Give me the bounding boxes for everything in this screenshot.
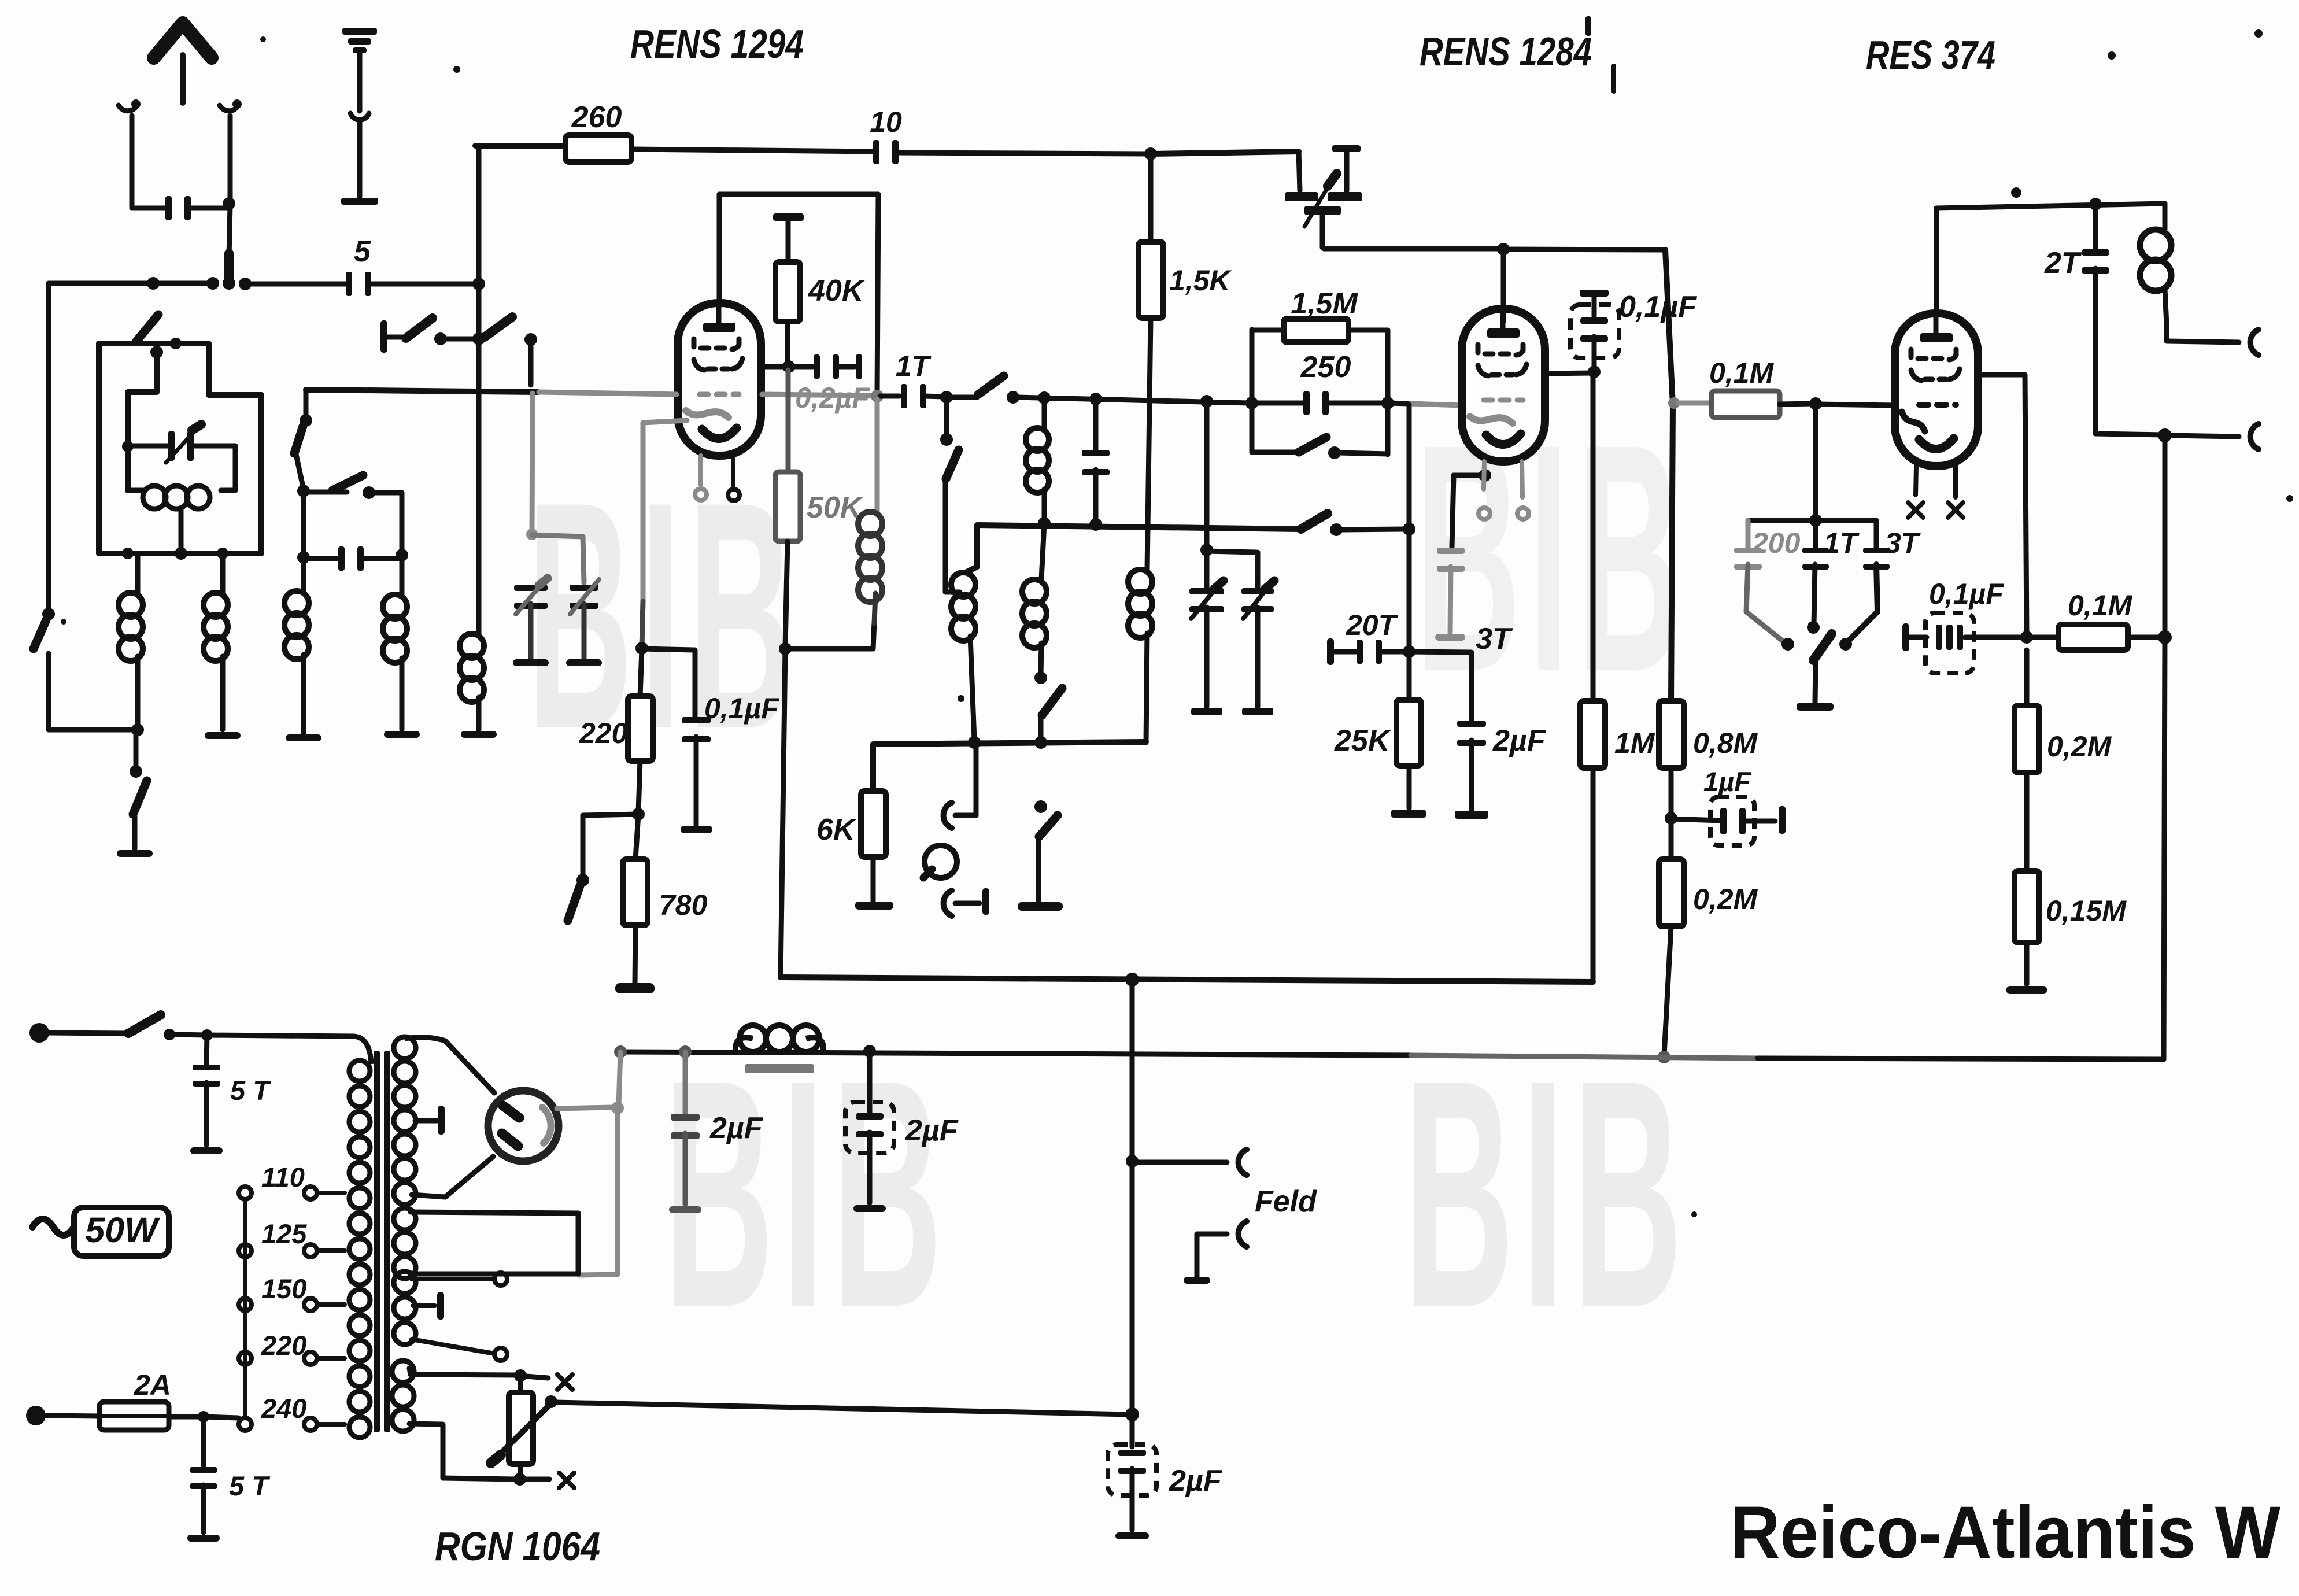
wire Feld terminal [1134,1160,1227,1165]
wire vertical x828 [476,146,482,630]
voltage selector column [239,1187,252,1431]
svg-text:2A: 2A [134,1369,171,1401]
ground 6K [855,902,893,910]
wire cathode branch [642,649,695,719]
svg-text:1µF: 1µF [1703,766,1751,797]
coil frame antenna [128,486,235,509]
svg-text:250: 250 [1300,350,1351,384]
wire 40K to grid node [782,322,795,373]
wire 1,5M bracket right [1381,330,1394,455]
capacitor 1T [880,350,944,408]
svg-text:BIB: BIB [1404,1013,1691,1375]
wire HV bottom to plate [412,1157,493,1197]
frame antenna box outline [99,343,261,553]
wire fuse to selector [169,1411,238,1423]
resistor 0,15M [2015,773,2127,943]
earth/ground electrode symbol [341,28,378,205]
capacitor 0,1µF cathode [682,692,779,825]
svg-text:0,1µF: 0,1µF [1929,578,2004,610]
trimmer osc 1 [1189,551,1224,707]
tube RENS 1294 envelope [678,303,761,456]
wire grid bus black [306,390,538,392]
scan speck 10 [260,36,266,42]
wire frame inner [122,352,157,490]
svg-text:1T: 1T [1824,527,1860,559]
tube1 pin circles [695,489,740,501]
transformer core [374,1051,390,1432]
svg-text:150: 150 [261,1273,306,1304]
label 220 [261,1330,306,1361]
wire AVC line gray [539,392,874,396]
terminal 0,2µF end [856,354,862,379]
svg-text:40K: 40K [808,274,866,308]
wire feedback box top [719,192,878,197]
switch left open blade [34,620,46,649]
hook speaker 2 [2250,424,2259,449]
capacitor 2T [2044,204,2109,434]
capacitor 5 [346,235,371,296]
scan speck 7 [1691,1211,1697,1217]
tube3 x marks [1908,503,1963,518]
switch frame top blade [136,315,182,359]
capacitor 0,1µF coupling (dashed box) [1925,578,2024,673]
switch ground blade [133,781,147,814]
svg-text:Reico-Atlantis W: Reico-Atlantis W [1730,1491,2280,1574]
antenna symbol [154,23,212,103]
wire cap10 to HT node [896,147,1157,160]
wire osc bus corner [966,525,977,572]
wire grid lead tube1 [761,364,786,370]
wire contact drop [528,341,534,385]
coil B (frame coil 2) [204,553,228,730]
wire HV top to plate [405,1037,494,1093]
tube RENS 1284 envelope [1462,309,1545,461]
switch coil4 blade [1034,688,1062,749]
wire mixer node drop [940,400,953,446]
trimmer AVC 1 [513,578,549,666]
wire box left side [781,649,785,976]
hook speaker 1 [2250,330,2259,355]
node AVC [871,390,884,402]
switch bias blade [568,886,580,921]
wire hum wiper to HT- [555,1402,1130,1414]
watermark BIB background [527,377,1691,1375]
wire x235 drop [130,730,142,778]
wire HT- vertical [1125,981,1139,1447]
terminal 2µF [1455,811,1488,819]
svg-text:0,8M: 0,8M [1693,727,1758,759]
node bus left [223,277,235,290]
svg-text:10: 10 [870,106,902,138]
wire HT to osc section [1151,152,1299,154]
capacitor 5T mains 2 [187,1417,271,1542]
ground Feld lower [1184,1234,1227,1284]
trimmer osc 2 [1241,581,1274,707]
svg-text:5 T: 5 T [229,1471,271,1501]
resistor 40K [775,221,866,322]
scan speck 11 [958,695,964,702]
wire screen lead tube2 [1545,373,1591,374]
label Feld [1255,1185,1317,1218]
wire speaker top [2167,341,2239,342]
tube1 pin leads [701,456,733,487]
wire trimmer2 branch [1207,551,1258,589]
wire screen feed right [1665,250,1673,701]
coil 3 (osc coupling) [1026,399,1049,522]
hook Feld [1239,1150,1247,1175]
terminal 0,1µF post [1902,623,1927,651]
scan speck 3 [1611,64,1616,94]
wire 1,5K down [1147,318,1151,570]
svg-text:2µF: 2µF [905,1114,959,1147]
svg-text:2µF: 2µF [709,1111,763,1145]
wire top left feed [475,143,565,149]
svg-text:BIB: BIB [1415,377,1690,738]
svg-text:780: 780 [659,889,708,921]
capacitor 10 [870,106,902,164]
label RES 374 [1866,32,1995,77]
wire grid lead tube3 [1818,404,1895,405]
resistor 1,5K [1139,154,1233,318]
wire rectifier output gray [557,1102,624,1275]
capacitor 0,2µF grid [791,354,855,379]
wire filament bottom [409,1424,549,1486]
svg-text:260: 260 [571,101,622,134]
ground 0,15M [2006,943,2047,994]
ground coil E [461,731,497,738]
gray AVC drop [526,393,538,540]
trimmer AVC 2 [566,579,602,666]
terminal 40K top [773,213,804,221]
capacitor 2µF filter 2 (dashed box) [845,1051,959,1212]
resistor 50K [775,370,864,541]
wire HT- box right / resistor 1M leads [1591,375,1596,982]
svg-text:1M: 1M [1614,727,1655,759]
fuse 2A [26,1369,171,1430]
capacitor osc pad [1082,399,1110,522]
resistor 1,5M [1252,287,1388,342]
wire x695 drop [400,555,405,594]
wire 20T to 2µF [1409,652,1470,652]
scan speck 2 [1585,16,1591,36]
capacitor 2µF cathode [1457,652,1546,810]
wire plate line y430 [1324,243,1665,256]
switch tone blade [1813,634,1832,702]
wire to x695 [374,493,408,561]
wire to coil2 tap [945,480,960,592]
switch row T-post [380,320,405,353]
capacitor 1T anode [1802,522,1860,634]
capacitor padding [297,546,402,571]
ground tone switch [1797,703,1834,711]
tube RGN 1064 (rectifier) [488,1091,559,1161]
wire plate lead tube1 [717,194,722,303]
wire coil A to switch [49,727,138,733]
wire left vertical lower [46,653,51,730]
svg-text:0,1M: 0,1M [1709,357,1775,389]
coil output transformer [2140,204,2171,340]
node output join [2158,428,2172,442]
svg-text:1,5M: 1,5M [1291,287,1358,320]
terminal HV center tap [415,1106,445,1135]
ground coil B [205,732,241,739]
terminal pickup bar [1018,902,1063,911]
svg-text:RENS 1294: RENS 1294 [630,21,804,66]
resistor 260 [565,101,631,162]
node antenna selector [223,197,235,210]
resistor 0,2M right [2015,650,2112,773]
node bus right of gap [239,278,252,290]
switch osc blade [1301,513,1343,536]
wire bus to cap 5 [245,282,348,287]
wire mains 1b [175,1029,371,1064]
svg-text:240: 240 [261,1393,306,1424]
capacitor 20T [1327,609,1406,665]
wire cap5 to vertical [369,282,479,287]
wire cathode branch tube2 [1452,469,1491,547]
svg-text:RGN 1064: RGN 1064 [435,1524,600,1569]
switch row blade 1 [406,318,447,345]
scan speck 9 [2254,29,2263,38]
capacitor antenna series [132,196,229,220]
wire tube3 side [1978,375,2033,644]
coil 5 (IF primary) [1128,570,1152,742]
switch grid blade [949,376,1019,404]
gray AVC branch [532,535,584,583]
wire 50K down [779,541,792,655]
wire cathode-coil link [785,622,874,649]
transformer primary winding [349,1061,370,1438]
svg-text:220: 220 [261,1330,306,1361]
variable capacitor frame trimmer [128,424,235,490]
title Reico-Atlantis W [1730,1491,2280,1574]
svg-text:RENS 1284: RENS 1284 [1420,29,1592,74]
switch row blade 2 [485,317,537,346]
svg-text:50K: 50K [807,491,864,524]
wire HT- main rail [620,1052,2164,1059]
svg-text:0,15M: 0,15M [2046,895,2127,927]
switch mains blade [128,1015,175,1040]
wire cathode tube1 [635,420,687,655]
capacitor trio bracket [1748,405,1876,527]
coil D (antenna coil 4) [383,594,407,730]
coil E (antenna coil 5) [460,628,484,730]
wire x525 drop [301,491,306,591]
label 125 [261,1218,307,1249]
terminal phones post [982,888,989,915]
svg-text:200: 200 [1751,527,1801,559]
label ~ mains [32,1219,74,1235]
hook Feld lower [1239,1221,1247,1247]
scan speck 5 [2108,51,2116,60]
tube2 pin leads [1484,461,1522,497]
capacitor 250 [1252,350,1388,415]
wire 220 to 780 [632,761,645,821]
svg-text:25K: 25K [1334,724,1392,758]
wire cathode bus 1283 [873,742,1146,791]
antenna terminal hook 2 [220,99,242,205]
node 2µF filter 1 [679,1045,692,1058]
capacitor 1µF (dashed box) [1671,766,1786,845]
wire 260 to cap10 [631,149,875,152]
ground antenna switch [117,850,153,857]
heater terminal circles [494,1273,507,1361]
antenna terminal hook 1 [119,99,141,208]
svg-text:Feld: Feld [1255,1185,1317,1218]
wire antenna bus [49,277,219,290]
node choke output [863,1045,876,1058]
wire grid2 gray [1388,403,1462,405]
svg-text:BIB: BIB [527,435,801,796]
svg-text:110: 110 [261,1162,305,1192]
svg-text:RES 374: RES 374 [1866,32,1995,77]
wire 0,8M down [1665,768,1677,825]
wire grid bus corner [300,390,312,427]
svg-text:2µF: 2µF [1169,1464,1222,1498]
wire 2T corner [2095,434,2165,435]
terminal 0,1µF end [681,826,712,833]
coil 1 (antenna secondary) [858,399,882,623]
variable resistor hum [491,1376,557,1478]
wire osc grid leak [1403,405,1415,658]
wire 1,5M bracket left [1245,330,1258,452]
node coil A bottom [131,723,144,736]
choke (field coil) [735,1025,823,1073]
resistor 0,1M grid [1678,357,1813,418]
voltage selector taps [304,1187,345,1431]
wire 6K to ground [871,857,876,901]
ground 780 pad [615,925,655,993]
wire feedback box right [877,194,878,393]
svg-text:3T: 3T [1885,527,1921,559]
resistor 780 [623,814,708,925]
label 240 [261,1393,306,1424]
label RENS 1294 [630,21,804,66]
coil 2 (oscillator) [951,572,975,740]
terminal trimmer2 [1242,708,1273,715]
svg-text:50W: 50W [85,1210,160,1250]
wire bias branch [576,814,638,886]
hook phones 2 [944,891,980,916]
wire to ground [132,817,138,849]
coil C (antenna coil 3) [284,591,309,733]
wire HT- box bottom [781,973,1593,987]
label 150 [261,1273,306,1304]
wire frame tap [122,508,228,560]
mains terminal 1 [29,1023,49,1043]
capacitor 2µF filter 1 [669,1052,763,1213]
scan speck 6 [61,619,66,625]
switch regen [1252,437,1388,459]
resistor 25K [1334,652,1421,766]
node mixer grid [940,391,953,404]
coil 4 (osc tap) [1022,523,1047,684]
resistor 0,2M left [1659,818,1758,926]
wire plate lead tube2 [1501,250,1506,322]
transformer heater winding B [394,1208,578,1279]
terminal x top [557,1375,572,1390]
node coil2 bottom [968,736,981,749]
scan speck 8 [2286,495,2293,502]
coil A (frame coil) [119,553,143,727]
node screen gray [1668,397,1680,409]
transformer heater winding C [394,1272,491,1353]
switch antenna selector blade [224,249,234,285]
wire x2087 drop [1200,403,1213,556]
svg-text:1T: 1T [896,350,932,382]
label RGN 1064 [435,1524,600,1569]
scan speck 1 [453,66,460,73]
node x828 bus [472,278,485,290]
wire plate lead tube3 [1934,208,1939,313]
wire osc bus [977,517,1299,531]
svg-text:0,1µF: 0,1µF [1619,290,1697,324]
svg-text:125: 125 [261,1218,307,1249]
ground coil D [384,731,420,738]
switch waveband blade 3 [332,475,375,499]
svg-text:5: 5 [354,235,371,268]
wire antenna drop [229,206,230,257]
tube RES 374 envelope [1895,313,1978,466]
capacitor 3T [1435,548,1513,656]
resistor 1M [1580,701,1655,768]
svg-text:2T: 2T [2044,246,2082,280]
wire plate top line [1936,198,2165,210]
wire filament top [409,1368,548,1382]
svg-text:220: 220 [579,717,628,749]
svg-text:0,1µF: 0,1µF [704,692,779,725]
node choke input [614,1045,627,1106]
wire 0,2M to HT- [1658,926,1671,1063]
label 110 [261,1162,305,1192]
terminal x bottom [559,1473,574,1488]
terminal trimmer1 [1191,708,1222,715]
wire right HT rail [2158,435,2172,1058]
node grid tube3 [1809,397,1822,410]
scan speck 4 [2011,187,2021,198]
wire speaker bottom [2169,435,2239,437]
wire osc switch out [1341,523,1415,535]
label 50W box [74,1207,169,1256]
transformer rectifier filament winding [392,1361,414,1431]
transformer HV secondary [394,1037,416,1205]
switch coil2 blade [946,450,959,479]
resistor 0,1M coupling [2028,589,2163,650]
svg-text:3T: 3T [1476,622,1513,656]
capacitor 2µF output (dashed box) [1108,1444,1222,1539]
svg-text:6K: 6K [816,813,857,847]
capacitor 5T mains 1 [190,1035,272,1154]
variable capacitor oscillator padder [1285,145,1362,249]
tube2 pin circles [1479,508,1529,519]
svg-text:0,2M: 0,2M [1693,883,1758,915]
switch pickup [1034,800,1058,901]
capacitor 200 (gray) [1734,520,1801,651]
svg-text:20T: 20T [1346,609,1399,641]
svg-text:0,1M: 0,1M [2068,589,2133,622]
svg-text:0,2M: 0,2M [2047,730,2112,763]
wire mains 1 [49,1033,127,1033]
resistor 220 [579,649,653,761]
wire left vertical x84 [42,283,55,620]
label RENS 1284 [1420,29,1592,74]
capacitor 3T anode [1839,520,1921,651]
jack circle [923,845,957,878]
terminal 25K [1391,766,1426,818]
svg-text:1,5K: 1,5K [1169,264,1233,297]
wire grid bus 2 [1018,391,1249,408]
svg-text:5 T: 5 T [230,1075,272,1106]
